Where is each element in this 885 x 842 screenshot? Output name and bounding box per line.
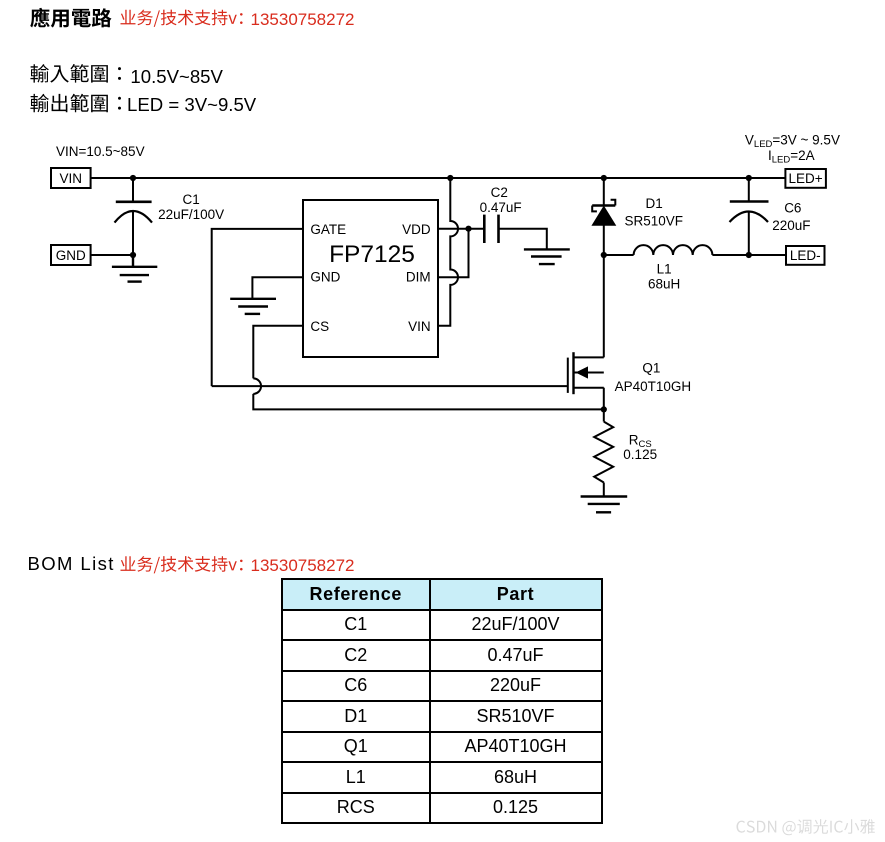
wire: CS pin left and down with hop over gate wire <box>253 326 303 379</box>
node: VDD junction <box>465 226 471 232</box>
svg-text:68uH: 68uH <box>648 277 680 292</box>
wire: node to L1 <box>604 254 634 256</box>
wire: top rail to VIN pin with hops over VDD and DIM wires <box>438 178 458 326</box>
LED- terminal box <box>786 246 825 265</box>
svg-text:VIN: VIN <box>408 319 431 334</box>
inductor L1 <box>634 245 713 255</box>
wire: C2 to ground <box>499 229 547 250</box>
svg-text:LED-: LED- <box>790 248 821 263</box>
ground symbol (RCS) <box>581 497 628 513</box>
svg-text:GND: GND <box>310 270 340 285</box>
svg-text:0.47uF: 0.47uF <box>480 200 522 215</box>
node: VIN/C1 junction <box>130 175 136 181</box>
node: C6/LED- junction <box>746 252 752 258</box>
svg-text:L1: L1 <box>657 261 672 276</box>
node: C6 branch junction <box>746 175 752 181</box>
svg-text:LED+: LED+ <box>789 171 823 186</box>
svg-text:VIN: VIN <box>60 171 83 186</box>
capacitor C1 (polarized) <box>115 178 153 255</box>
wire: VDD pin to C2 <box>438 228 484 230</box>
wire: VDD to DIM tie <box>438 229 469 278</box>
capacitor C2 <box>484 215 498 243</box>
svg-text:VIN=10.5~85V: VIN=10.5~85V <box>56 144 145 159</box>
svg-text:D1: D1 <box>646 196 663 211</box>
wire: L1 to LED- <box>712 254 786 256</box>
node: source/RCS junction <box>601 406 607 412</box>
svg-text:ILED=2A: ILED=2A <box>768 148 815 166</box>
svg-text:VDD: VDD <box>402 222 431 237</box>
resistor RCS <box>594 409 613 496</box>
svg-text:C2: C2 <box>491 185 508 200</box>
node: D1 branch junction <box>601 175 607 181</box>
svg-text:GND: GND <box>56 248 86 263</box>
node: D1/L1/Q1 junction <box>601 252 607 258</box>
svg-text:FP7125: FP7125 <box>329 241 415 268</box>
diode D1 SR510VF (schottky) <box>592 178 615 255</box>
svg-text:DIM: DIM <box>406 270 431 285</box>
ground symbol (C1/GND) <box>112 255 157 282</box>
ground symbol (IC GND) <box>230 299 276 314</box>
wire: GND box to C1 bottom <box>91 254 133 256</box>
wire: GATE pin to left <box>212 229 303 386</box>
ground symbol (C2) <box>524 249 570 264</box>
node: C2 branch junction <box>447 175 453 181</box>
svg-text:Q1: Q1 <box>642 361 660 376</box>
capacitor C6 (polarized) <box>730 178 769 255</box>
wire: GND pin to ground <box>252 277 303 299</box>
transistor Q1 AP40T10GH (NMOS) <box>568 255 604 409</box>
svg-text:CS: CS <box>310 319 329 334</box>
svg-text:GATE: GATE <box>310 222 346 237</box>
svg-text:AP40T10GH: AP40T10GH <box>615 379 692 394</box>
svg-text:22uF/100V: 22uF/100V <box>158 207 224 222</box>
svg-text:C6: C6 <box>784 201 801 216</box>
IC U1 FP7125 body <box>303 200 438 357</box>
BOM table <box>281 578 603 824</box>
LED+ terminal box <box>785 169 826 188</box>
svg-text:C1: C1 <box>183 192 200 207</box>
node: GND/C1 junction <box>130 252 136 258</box>
svg-text:0.125: 0.125 <box>623 447 657 462</box>
VIN terminal box <box>51 168 91 188</box>
GND terminal box <box>51 245 91 265</box>
wire: gate bottom wire to Q1 <box>212 385 568 387</box>
svg-text:220uF: 220uF <box>772 218 810 233</box>
svg-text:SR510VF: SR510VF <box>625 213 684 228</box>
wire: top VIN rail <box>91 177 786 179</box>
